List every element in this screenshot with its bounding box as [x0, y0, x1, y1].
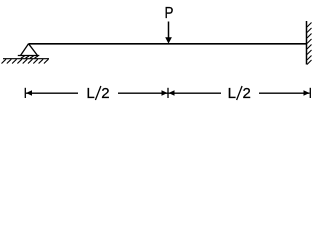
wall hatching [307, 23, 312, 65]
dimension line left segment a [26, 92, 78, 94]
ground hatching [2, 59, 49, 63]
pin support base line [18, 55, 40, 57]
dimension arrow left-right [162, 90, 168, 96]
ground line [3, 58, 49, 60]
dimension line right segment a [169, 92, 222, 94]
svg-text:L: L [86, 85, 94, 102]
load arrow [165, 22, 172, 44]
dimension text L/2 left [86, 85, 109, 102]
wall line [306, 21, 308, 65]
svg-text:L: L [228, 85, 236, 102]
dimension tick middle [167, 88, 169, 98]
dimension line right segment b [259, 92, 310, 94]
pin support base hatching [21, 56, 38, 58]
svg-text:2: 2 [243, 85, 251, 102]
dimension tick right [309, 88, 311, 98]
dimension arrow left-left [26, 90, 32, 96]
svg-text:2: 2 [101, 85, 109, 102]
dimension text L/2 right [228, 85, 251, 102]
beam [29, 43, 307, 45]
dimension arrow right-left [169, 90, 175, 96]
svg-text:P: P [165, 5, 174, 22]
dimension line left segment b [118, 92, 168, 94]
pin support triangle [21, 44, 38, 56]
dimension arrow right-right [304, 90, 310, 96]
dimension tick left [24, 88, 26, 98]
